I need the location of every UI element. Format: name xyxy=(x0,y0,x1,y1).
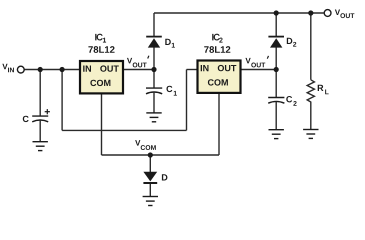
wire diode D2 to node VOUT2 xyxy=(275,47,277,69)
junction node VOUT1 xyxy=(151,67,156,72)
designator D xyxy=(162,174,168,180)
designator C1 xyxy=(166,86,172,92)
designator C2 xyxy=(286,96,292,102)
terminal VOUT xyxy=(324,10,354,19)
ground under RL xyxy=(303,130,318,139)
pin label IN of IC1 xyxy=(83,66,91,72)
wire rail down to diode D2 xyxy=(275,13,277,36)
wire IC1 COM pin down xyxy=(101,93,103,155)
ground under C2 xyxy=(269,130,284,139)
diode D xyxy=(143,172,167,183)
diode D2 xyxy=(268,37,296,48)
wire VCOM bus xyxy=(102,154,220,156)
pin label OUT of IC1 xyxy=(100,65,119,71)
junction node input/IC2 feed xyxy=(60,67,65,72)
junction node rail/RL xyxy=(308,10,313,15)
wire top rail xyxy=(154,12,324,14)
wire VIN terminal to IC1 IN pin xyxy=(24,69,80,71)
value label 78L12 of IC1 xyxy=(88,46,114,53)
node VOUT1 label xyxy=(127,56,149,68)
designator IC1 xyxy=(88,34,114,53)
node VCOM label xyxy=(135,140,156,150)
pin label IN of IC2 xyxy=(201,65,209,71)
wire rail down to diode D1 xyxy=(153,13,155,36)
capacitor C2 xyxy=(268,96,296,129)
wire bottom feed run to IC2 xyxy=(62,129,186,131)
value label 78L12 of IC2 xyxy=(204,46,230,53)
ground under C xyxy=(33,142,48,151)
wire node VOUT2 down to capacitor C2 xyxy=(275,70,277,98)
terminal VIN xyxy=(2,64,24,73)
designator IC2 xyxy=(204,34,230,53)
resistor RL xyxy=(307,80,328,104)
junction node input/capacitor C xyxy=(38,67,43,72)
wire IC2 OUT pin to node VOUT2 xyxy=(241,69,277,71)
capacitor C1 xyxy=(146,86,177,113)
wire IC2 COM pin down xyxy=(218,93,220,155)
designator RL xyxy=(318,85,324,91)
wire diode D1 to node VOUT1 xyxy=(153,47,155,69)
wire node VCOM down to diode D xyxy=(149,155,151,172)
junction node VOUT2 xyxy=(274,67,279,72)
wire node VOUT1 down to capacitor C1 xyxy=(153,70,155,89)
ground under D xyxy=(143,197,158,206)
wire feed riser to IC2 IN level xyxy=(186,70,188,131)
wire input node down for IC2 feed xyxy=(61,70,63,131)
pin label COM of IC1 xyxy=(90,80,110,86)
wire rail down to resistor RL xyxy=(310,13,312,80)
junction node VCOM xyxy=(148,152,153,157)
plus polarity mark xyxy=(45,111,50,113)
designator C xyxy=(23,116,29,122)
designator D1 xyxy=(165,39,171,45)
wire diode D to ground xyxy=(149,184,151,196)
ground under C1 xyxy=(146,113,161,122)
node VOUT2 label xyxy=(245,56,268,67)
diode D1 xyxy=(146,37,175,48)
capacitor C (input, polarized) xyxy=(23,109,50,141)
wire input node down to capacitor C xyxy=(39,70,41,117)
junction node rail/D2 xyxy=(274,10,279,15)
pin label OUT of IC2 xyxy=(218,65,237,71)
pin label COM of IC2 xyxy=(208,79,228,85)
wire resistor RL to ground xyxy=(310,104,312,129)
designator D2 xyxy=(287,38,293,44)
regulator IC1 78L12 xyxy=(80,61,123,93)
wire IC1 OUT pin to node VOUT1 xyxy=(123,69,154,71)
wire into IC2 IN pin xyxy=(187,69,198,71)
regulator IC2 78L12 xyxy=(198,61,241,93)
